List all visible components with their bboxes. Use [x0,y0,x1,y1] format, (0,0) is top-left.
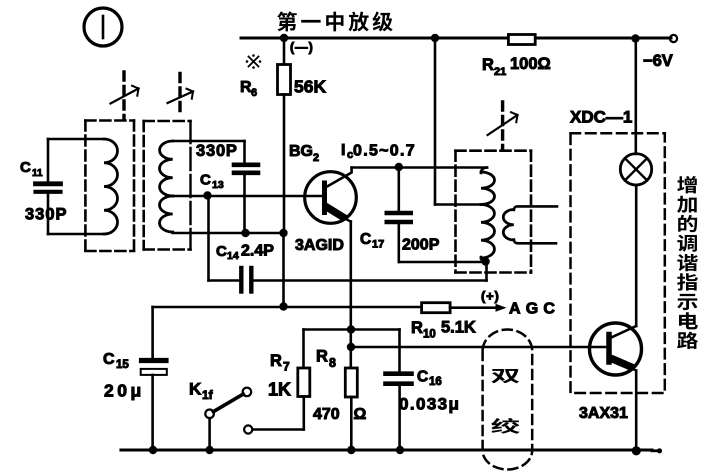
svg-text:R: R [270,352,282,370]
IF transformer 2 dashed box [144,120,191,123]
node C13 bottom junction [241,229,249,237]
capacitor C15 electrolytic [151,307,154,358]
wire supply drop to IF transformer tap [434,38,437,205]
svg-text:470: 470 [313,406,340,423]
terminal -6V [670,35,677,42]
wire L2 tap to BG2 base [173,195,323,198]
svg-text:(—): (—) [290,41,314,55]
svg-text:(+): (+) [481,289,500,304]
node emitter R7 C16 junction [347,325,355,333]
svg-text:0.033μ: 0.033μ [399,395,460,414]
node C16 ground junction [396,446,404,454]
node top rail lamp junction [631,34,639,42]
svg-text:330P: 330P [196,142,238,160]
svg-text:56K: 56K [294,77,326,97]
svg-text:−6V: −6V [643,52,673,70]
emitter arrow of 3AX31 (PNP) [613,359,631,367]
svg-text:6: 6 [251,87,257,99]
node top rail XFMR2 junction [431,34,439,42]
wire BG2 collector line [352,166,487,169]
capacitor C16 [386,371,412,376]
XDC-1 dashed box [571,133,665,393]
wire tank1 top [48,138,104,141]
wire BG2 emitter down [349,222,352,369]
wire R6 node to AGC line [282,233,285,307]
node C17 top junction [395,163,403,171]
IF transformer 2 (2nd) dashed box [456,149,532,152]
label asterisk note (drawn) [246,54,262,69]
transistor 3AX31 [590,323,642,375]
svg-text:R: R [411,319,423,337]
indicator lamp XD [620,154,651,185]
wire C17 bottom to coil node [399,261,486,264]
label 绞 pair [491,418,520,434]
svg-text:2.4P: 2.4P [241,243,274,260]
adjustable core arrow above L3 [501,102,504,148]
svg-text:Ω: Ω [354,406,367,423]
wire base node down to C14 [207,196,210,281]
svg-text:20μ: 20μ [104,381,145,401]
resistor R6 [283,38,286,65]
inductor L2 coil tapped [159,141,172,196]
svg-text:C: C [417,369,428,386]
svg-text:16: 16 [429,376,442,388]
node K1f ground junction [205,446,213,454]
figure number circle 1 [84,8,122,46]
svg-text:I: I [341,142,345,159]
svg-text:C: C [200,172,211,189]
svg-text:C: C [360,231,371,248]
svg-text:3AGID: 3AGID [295,237,344,254]
svg-text:1K: 1K [268,380,291,400]
AGC arrowhead [496,304,507,312]
label vertical note 增加的调谐指示电路 [677,176,697,193]
svg-text:A G C: A G C [509,301,556,318]
wire to 3AX31 base [351,346,607,349]
label 双 twisted [491,369,519,383]
wire top supply rail [241,37,671,40]
svg-text:10: 10 [423,329,436,341]
svg-text:XDC—1: XDC—1 [570,108,632,127]
ground rail end stub [652,449,659,452]
wire tank1 bottom [48,233,104,236]
wire L2 top to C13 [173,140,245,143]
emitter arrow of BG2 (PNP) [328,208,343,217]
wire 3AX31 emitter to ground [635,371,638,451]
resistor R7 1K [298,368,310,397]
svg-text:200P: 200P [402,237,440,254]
wire emitter node to R7 and C16 [304,328,400,331]
svg-text:330P: 330P [25,206,68,224]
node R8 ground junction [347,446,355,454]
transistor BG2 [305,172,357,224]
capacitor C14 [239,268,243,292]
node C15 ground junction [149,446,157,454]
capacitor C11 [47,139,50,181]
node emitter to 3AX31 base junction [347,343,355,351]
svg-text:R: R [482,56,494,74]
wire lamp to 3AX31 collector [635,185,638,326]
svg-text:C: C [216,243,227,260]
node top rail R6 junction [280,34,288,42]
svg-text:21: 21 [494,66,506,78]
svg-text:8: 8 [329,356,336,370]
inductor L4 secondary coil [514,206,557,210]
capacitor C13 [234,163,258,168]
svg-text:13: 13 [212,179,224,191]
inductor L3 primary coil tapped [481,168,487,174]
wire AGC line [153,306,422,309]
svg-text:7: 7 [283,360,290,374]
wire -6V to lamp [634,39,637,155]
svg-text:C: C [103,351,115,368]
IF transformer 1 dashed box [85,119,134,122]
wire ground rail [121,448,652,451]
title text 第一中放级 [277,11,297,31]
twisted pair dashed capsule [483,330,533,470]
svg-text:BG: BG [289,143,313,160]
svg-text:C: C [20,159,31,176]
svg-text:R: R [316,348,328,366]
node R6-AGC junction [279,302,287,310]
svg-text:0.5~0.7: 0.5~0.7 [353,143,416,160]
svg-text:100Ω: 100Ω [510,55,551,73]
svg-text:K: K [189,380,202,399]
switch K1f [205,410,214,419]
svg-text:5.1K: 5.1K [441,319,476,337]
wire C14 to IF2 coil bottom node [251,279,486,282]
wire L2 bottom to R6 node [173,232,284,235]
svg-text:11: 11 [32,168,43,179]
capacitor C17 [397,168,400,211]
inductor L1 coil [104,139,118,234]
adjustable core arrow above L2 [178,74,181,118]
adjustable core arrow above L1 [122,72,125,118]
node 3AX31 emitter ground junction [632,446,641,455]
svg-text:15: 15 [116,359,129,371]
svg-text:14: 14 [227,250,239,262]
node base C14 junction [203,191,211,199]
resistor R10 5.1K [422,303,451,313]
svg-text:1f: 1f [202,388,214,402]
svg-text:3AX31: 3AX31 [579,405,628,422]
node IF2 primary bottom junction [481,257,489,265]
svg-text:2: 2 [313,152,319,164]
resistor R8 470ohm [345,368,357,397]
resistor R21 100ohm [508,35,535,45]
node R6 bottom junction [279,229,287,237]
svg-text:17: 17 [372,239,384,251]
